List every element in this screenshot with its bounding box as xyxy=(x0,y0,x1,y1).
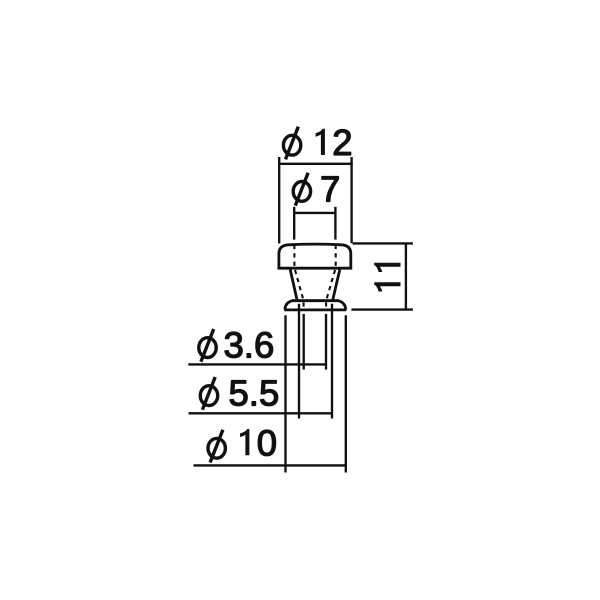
phi5.5 right extension line xyxy=(331,304,333,419)
svg-text:2: 2 xyxy=(332,122,352,163)
dim 11 dimension line xyxy=(405,243,407,309)
dim 11 bottom extension line xyxy=(351,308,413,310)
svg-text:3.6: 3.6 xyxy=(224,324,275,365)
label phi7 xyxy=(293,168,340,209)
flange bottom line xyxy=(284,308,346,311)
svg-text:7: 7 xyxy=(320,168,340,209)
phi5.5 left extension line xyxy=(298,304,300,419)
phi10 right extension line xyxy=(345,315,347,472)
phi3.6 leader line xyxy=(188,363,327,365)
hidden hole line right (dashed) xyxy=(326,245,336,311)
label phi12 xyxy=(283,122,352,163)
label 11 (rotated) xyxy=(374,263,400,292)
phi7 dimension line xyxy=(293,212,336,214)
phi5.5 leader line xyxy=(189,412,334,414)
phi12 dimension line xyxy=(278,163,353,165)
phi3.6 right extension line xyxy=(325,314,327,370)
tapered neck right edge xyxy=(333,269,340,300)
label phi3.6 xyxy=(199,324,274,365)
phi12 right extension line xyxy=(350,157,352,243)
hidden hole line left (dashed) xyxy=(294,245,303,311)
button head cap (phi 12) xyxy=(279,244,351,268)
phi12 left extension line xyxy=(278,157,280,244)
phi7 left extension line xyxy=(293,207,295,240)
phi10 leader line xyxy=(194,464,347,466)
phi3.6 left extension line xyxy=(303,314,305,370)
phi10 left extension line xyxy=(284,315,286,472)
phi7 right extension line xyxy=(334,207,336,240)
label phi10 xyxy=(208,422,277,463)
svg-text:0: 0 xyxy=(257,422,277,463)
dim 11 top extension line xyxy=(353,242,413,244)
label phi5.5 xyxy=(200,373,279,414)
svg-text:5.5: 5.5 xyxy=(229,373,280,414)
flange dome (phi 10 base) xyxy=(285,301,346,310)
flange top line xyxy=(292,299,340,302)
tapered neck left edge xyxy=(290,269,297,300)
